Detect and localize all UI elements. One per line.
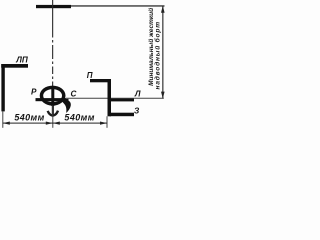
svg-text:540мм: 540мм: [14, 112, 44, 122]
svg-text:Л: Л: [134, 89, 141, 98]
svg-text:надводный борт: надводный борт: [154, 21, 162, 89]
svg-text:ЛП: ЛП: [15, 56, 29, 65]
svg-text:Р: Р: [31, 87, 37, 96]
svg-text:З: З: [134, 107, 140, 116]
svg-text:540мм: 540мм: [64, 112, 94, 122]
svg-text:П: П: [87, 71, 93, 80]
